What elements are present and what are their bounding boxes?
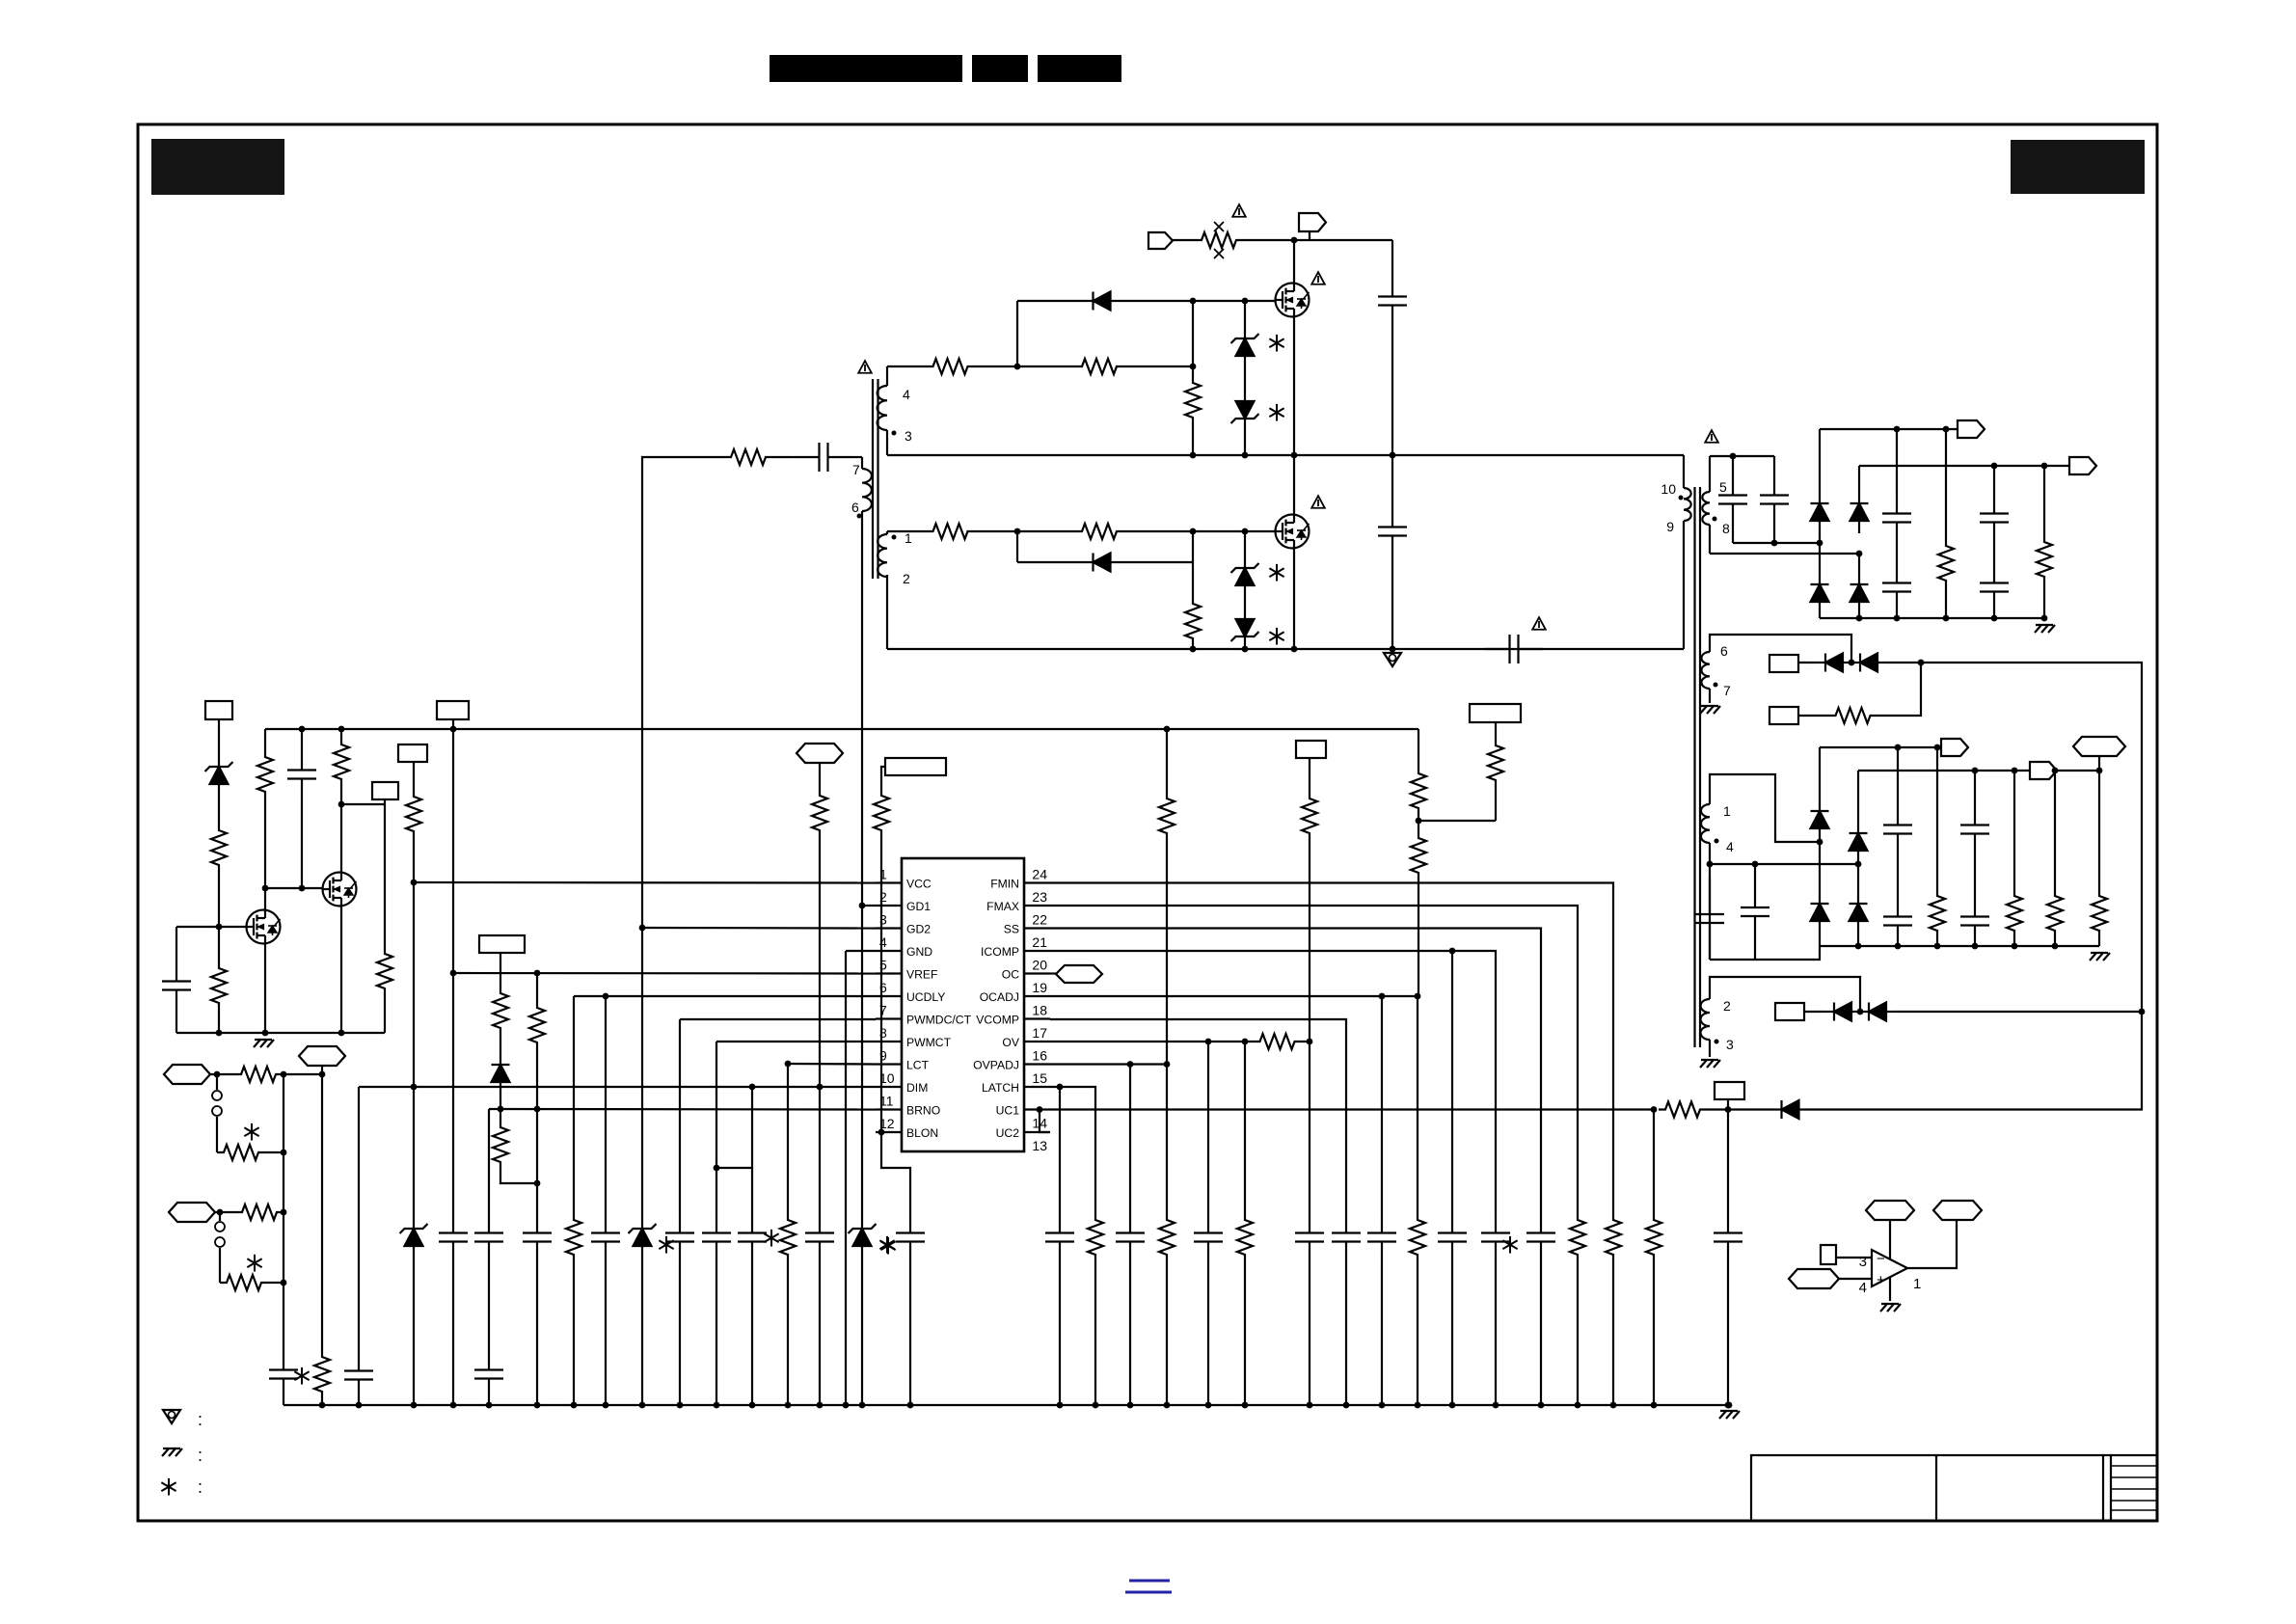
label U2 pin3: [1859, 1254, 1867, 1270]
resistor R_14: [1088, 1216, 1103, 1259]
junction bus1460 x780: [749, 1402, 756, 1409]
svg-text:18: 18: [1032, 1003, 1047, 1018]
resistor R_fb: [705, 449, 792, 465]
component box B13: [1821, 1245, 1836, 1264]
svg-text:21: 21: [1032, 934, 1047, 950]
wire col1210 low: [1166, 1065, 1168, 1217]
pin 4 GND: [876, 934, 932, 959]
op-amp U2: [1872, 1250, 1907, 1286]
capacitor C_in2: [1378, 510, 1407, 553]
wire B8 stem: [500, 953, 501, 989]
wire VIN column upper: [1391, 240, 1393, 280]
wire node896 right: [1710, 863, 1858, 865]
svg-text:1: 1: [1913, 1276, 1921, 1292]
nc contacts col228: [215, 1212, 225, 1283]
junction diode col2 mid: [1856, 551, 1863, 557]
wire col1887 gnd: [1819, 614, 1821, 618]
pin 14 UC1: [996, 1104, 1050, 1131]
diode D3: [1811, 491, 1829, 533]
resistor R_19: [1302, 795, 1317, 837]
wire PWMDCCT row: [680, 1018, 876, 1020]
junction OVPADJ x1172: [1127, 1061, 1134, 1068]
wire col2048b: [1974, 851, 1976, 900]
capacitor C_16: [1194, 1216, 1223, 1259]
wire col1887 rail1: [1819, 429, 1821, 491]
ground symbol bus1460: [1719, 1411, 1740, 1419]
wire row2 res2: [268, 1282, 284, 1284]
wire col1551 bus: [1495, 1259, 1497, 1405]
redaction bar 1: [770, 55, 962, 82]
wire GD2 row: [642, 927, 876, 930]
svg-text:24: 24: [1032, 867, 1047, 882]
junction row2 x228: [217, 1209, 224, 1216]
junction gnd641 x2068: [1991, 615, 1998, 622]
wire U2 gnd: [1889, 1278, 1891, 1301]
capacitor C_s10: [1883, 900, 1912, 942]
net tag hex VP: [797, 744, 843, 763]
junction gnd981 x2131: [2052, 943, 2059, 950]
wire col2009: [1936, 747, 1938, 892]
wire B7 stem: [413, 762, 415, 793]
wire B12 stem: [1495, 722, 1497, 742]
wire col334: [321, 1074, 323, 1353]
svg-text:PWMCT: PWMCT: [906, 1036, 952, 1049]
wire zener mid2: [1244, 598, 1246, 611]
junction cap col 1820 top: [1752, 861, 1759, 868]
junction bus1460 x334: [319, 1402, 326, 1409]
wire winding3 bottom: [1709, 1040, 1711, 1057]
junction bus1460 x1673: [1610, 1402, 1617, 1409]
resistor R_13: [1237, 1216, 1253, 1259]
redaction bar 2: [972, 55, 1028, 82]
component box B8: [479, 935, 525, 953]
wire winding4 bottom: [1709, 843, 1711, 960]
junction rail799 x2048: [1972, 768, 1979, 774]
svg-text:ICOMP: ICOMP: [981, 945, 1019, 959]
svg-text:DIM: DIM: [906, 1081, 928, 1095]
pin 5 VREF: [876, 958, 938, 982]
net tag hex CMP+: [1789, 1269, 1839, 1288]
wire VCC row: [414, 881, 876, 884]
wire col2177b: [2098, 934, 2100, 946]
wire col1470 low: [1417, 996, 1418, 1216]
asterisk C_12: [1502, 1236, 1517, 1254]
ground symbol winding3: [1700, 1060, 1720, 1068]
pin 17 OV: [1002, 1025, 1050, 1049]
wire gate row Q4: [265, 887, 323, 889]
junction gnd981 x1927: [1855, 943, 1862, 950]
resistor R_20: [1411, 770, 1426, 812]
junction bus1460 x557: [534, 1402, 541, 1409]
wire row1 b: [283, 1073, 322, 1075]
title block: [1751, 1455, 2157, 1521]
wire VIN column mid: [1391, 322, 1393, 455]
svg-text::: :: [198, 1410, 203, 1429]
junction rail483 x2068: [1991, 463, 1998, 470]
wire OV row: [1050, 1041, 1245, 1042]
bus 1071: [176, 1032, 385, 1034]
asterisk R_4: [764, 1230, 778, 1247]
junction col1927 mid: [1855, 861, 1862, 868]
capacitor C_s11: [1960, 808, 1989, 851]
component box B2: [1769, 707, 1798, 724]
zener ZD2: [1231, 389, 1259, 431]
wire col519 corner: [500, 1166, 537, 1183]
resistor R_s3: [1930, 892, 1945, 934]
svg-text:−: −: [1877, 1251, 1885, 1267]
junction gnd981 x1968: [1895, 943, 1902, 950]
wire Rg4 to gate Q2: [1157, 530, 1276, 532]
label T2 pin5: [1719, 479, 1727, 495]
wire col2089: [2013, 771, 2015, 892]
wire T2 primary bottom: [1683, 521, 1685, 649]
wire x1237 bus: [1192, 642, 1194, 649]
junction node B: [1190, 364, 1197, 370]
wire col507 low: [488, 1259, 490, 1353]
wire col850 mid: [819, 834, 821, 1087]
junction ICOMP row x1506: [1449, 948, 1456, 955]
wire Cfb to winding7: [852, 456, 862, 458]
net tag hex IN1: [164, 1065, 210, 1084]
junction col1887 mid: [1817, 839, 1823, 846]
wire ICOMP row: [1050, 951, 1496, 1216]
wire B5 stem: [341, 799, 385, 804]
rail sec1 445: [1820, 428, 1958, 430]
wire rail799 ext: [2057, 770, 2099, 771]
wire col313 top: [301, 729, 303, 753]
wire col1358 low: [1309, 1042, 1310, 1216]
junction D13 D14: [1857, 1009, 1864, 1015]
wire col227 mid2: [218, 869, 220, 927]
legend chassis ground symbol: [162, 1446, 203, 1465]
pin 20 OC: [1002, 958, 1050, 982]
wire col275 to Q3: [264, 888, 266, 910]
pin 18 VCOMP: [976, 1003, 1050, 1027]
wire LATCH row: [1050, 1087, 1095, 1216]
wire col1210 mid: [1166, 837, 1168, 1065]
wire SS row: [1050, 929, 1541, 1217]
label T1 pin3: [892, 428, 913, 444]
capacitor C_5: [738, 1216, 767, 1259]
label U2 minus: [1877, 1251, 1885, 1267]
border frame: [138, 124, 2157, 1521]
resistor R_15: [1659, 1102, 1707, 1118]
resistor R_8: [529, 1004, 545, 1046]
link underline 2: [1125, 1591, 1172, 1594]
junction gnd981 x2089: [2012, 943, 2018, 950]
wire PWMCT row: [716, 1041, 876, 1042]
wire B6 stem: [452, 719, 454, 729]
label T2 pin10: [1661, 481, 1683, 501]
junction row1 x225: [214, 1071, 221, 1078]
junction bus756 x313: [299, 726, 306, 733]
wire winding5 top: [1709, 456, 1711, 492]
capacitor C_15: [1332, 1216, 1361, 1259]
wire OCADJ row: [1050, 995, 1418, 997]
component box B12: [1470, 704, 1521, 722]
wire col1887C mid: [1819, 842, 1821, 890]
svg-text:FMAX: FMAX: [986, 900, 1019, 913]
capacitor C_20: [1295, 1216, 1324, 1259]
junction bus1460 x628: [603, 1402, 609, 1409]
junction bus1460 x372: [356, 1402, 363, 1409]
net tag OUT1: [1958, 420, 1985, 438]
wire col1968: [1897, 747, 1899, 808]
junction VREF row x470: [450, 970, 457, 977]
wire col1715: [1653, 1110, 1655, 1217]
net tag hex CMPOUT: [1933, 1201, 1982, 1220]
wire P1 to F1: [1173, 239, 1198, 241]
resistor R_7: [493, 1123, 508, 1166]
asterisk ZD1: [1269, 335, 1283, 352]
wire col354 top: [340, 729, 342, 741]
junction x1291 row551: [1242, 528, 1249, 535]
resistor R_s5: [2047, 892, 2063, 934]
resistor R_26: [235, 1204, 284, 1220]
ground symbol left section: [254, 1040, 274, 1047]
capacitor C_13: [1438, 1216, 1467, 1259]
wire winding6 down GD1 column: [861, 511, 863, 906]
resistor R_L3: [211, 964, 227, 1007]
wire winding7 top: [861, 457, 863, 469]
capacitor C_L1: [287, 753, 316, 796]
label T2 sec pin4: [1715, 839, 1735, 855]
junction bus1071 x275: [262, 1030, 269, 1037]
pin 11 BRNO: [876, 1094, 940, 1118]
wire col705: [679, 1019, 681, 1216]
wire col1928 rail2: [1858, 466, 1860, 491]
wire col1396 bus: [1345, 1259, 1347, 1405]
junction bus1460 x1172: [1127, 1402, 1134, 1409]
junction bus1460 x705: [677, 1402, 684, 1409]
wire col817 bus: [787, 1259, 789, 1405]
wire FMIN row: [1050, 883, 1613, 1217]
capacitor C_6: [805, 1216, 834, 1259]
resistor R_16: [1646, 1216, 1661, 1259]
wire col1172 bus: [1129, 1259, 1131, 1405]
junction GD2 row x666: [639, 925, 646, 932]
junction bus1460 x507: [486, 1402, 493, 1409]
wire bottom rail 995: [1710, 946, 1820, 960]
inductor T2 winding 5-8: [1702, 492, 1710, 525]
svg-text:1: 1: [905, 530, 912, 546]
warning mark Q2: [1311, 496, 1325, 508]
wire col294 bus: [283, 1395, 284, 1405]
net tag VIN: [1299, 213, 1326, 231]
wire col334 stem: [321, 1066, 323, 1074]
capacitor C_s5: [1980, 497, 2009, 539]
wire col850 top: [819, 763, 821, 792]
wire col227 mid: [218, 797, 220, 826]
svg-text::: :: [198, 1446, 203, 1465]
wire Q1 drain: [1293, 240, 1295, 284]
capacitor C_2: [591, 1216, 620, 1259]
junction BRNO row x519: [498, 1106, 504, 1113]
wire x1291 bus: [1244, 644, 1246, 649]
zener ZD6: [205, 754, 233, 797]
wire winding2 top: [1710, 977, 1860, 1012]
wire sec mid rail: [1710, 553, 1859, 555]
svg-text:OV: OV: [1002, 1036, 1019, 1049]
wire x1237 row583: [1192, 531, 1194, 562]
resistor R_27: [220, 1275, 268, 1290]
wire col595 bus: [573, 1259, 575, 1405]
wire T2 primary top: [1683, 455, 1685, 488]
wire col1792: [1727, 1110, 1729, 1217]
wire col429 bus: [413, 1259, 415, 1405]
resistor R_s6: [2092, 892, 2107, 934]
wire GND col: [845, 951, 847, 1405]
diode D15: [492, 1052, 510, 1095]
wire Q3 gate row: [176, 926, 247, 928]
label T1 pin6: [851, 500, 862, 519]
label T1 pin7: [852, 462, 860, 477]
resistor R_10: [1606, 1216, 1621, 1259]
net tag hex IN2: [169, 1203, 215, 1222]
diode D10: [1811, 890, 1829, 934]
svg-text:6: 6: [851, 500, 859, 515]
resistor R_pd1: [1185, 379, 1201, 421]
wire BLON jog: [881, 1132, 910, 1216]
wire col470 low: [452, 973, 454, 1216]
junction UC1 x1792: [1725, 1106, 1732, 1113]
wire col944 bus: [909, 1259, 911, 1405]
capacitor C_fb: [795, 443, 852, 472]
svg-text:16: 16: [1032, 1048, 1047, 1064]
wire row1: [210, 1073, 234, 1075]
wire UC1 row: [1050, 1108, 1654, 1110]
junction bus1460 x1136: [1093, 1402, 1099, 1409]
capacitor C_7: [474, 1216, 503, 1259]
label U2 plus: [1877, 1272, 1885, 1288]
component box B1: [1769, 655, 1798, 672]
capacitor C_s9: [1883, 808, 1912, 851]
wire col334 bus: [321, 1395, 323, 1405]
wire col1715 bus: [1653, 1259, 1655, 1405]
junction GD1 row: [859, 903, 866, 909]
label T1 pin4: [903, 387, 910, 402]
wire col1598 bus: [1540, 1259, 1542, 1405]
wire col628: [605, 996, 607, 1216]
wire x1291 upper: [1244, 301, 1246, 326]
capacitor C_s12: [1960, 900, 1989, 942]
wire col2048c: [1974, 942, 1976, 946]
junction OCADJ x1470: [1415, 993, 1421, 1000]
pin 7 PWMDC/CT: [876, 1003, 972, 1027]
diode D9: [1811, 798, 1829, 842]
net tag hex OUT5: [2073, 737, 2125, 756]
wire VIN to right column: [1294, 239, 1392, 241]
pin 16 OVPADJ: [973, 1048, 1050, 1072]
svg-text:3: 3: [905, 428, 912, 444]
wire VIN column bottom: [1391, 553, 1393, 649]
net tag hex VCC2: [1866, 1201, 1914, 1220]
inductor T1 winding 4-3: [878, 386, 887, 430]
wire col1136 bus: [1094, 1259, 1096, 1405]
junction rail483 x2120: [2041, 463, 2048, 470]
capacitor C_18: [1045, 1216, 1074, 1259]
junction bus1460 x1793: [1726, 1402, 1733, 1409]
black label box top-left: [151, 139, 284, 195]
wire col1358 mid: [1309, 837, 1310, 1042]
wire B9 stem: [881, 767, 885, 792]
svg-text:UCDLY: UCDLY: [906, 990, 945, 1004]
wire x1237 lower2: [1192, 562, 1194, 600]
zener ZD3: [1231, 555, 1259, 598]
resistor R_28: [314, 1353, 330, 1395]
wire R15-node: [1707, 1108, 1746, 1110]
resistor R_g1: [907, 359, 993, 374]
resistor R_pd2: [1185, 600, 1201, 642]
label T1 pin1: [892, 530, 913, 546]
warning mark Q1: [1311, 272, 1325, 284]
junction bus1460 x595: [571, 1402, 578, 1409]
svg-text:PWMDC/CT: PWMDC/CT: [906, 1014, 972, 1027]
wire col850 bus: [819, 1259, 821, 1405]
resistor R_g3: [907, 524, 993, 539]
wire Raux corner: [1888, 663, 1921, 716]
wire col1673 bus: [1612, 1259, 1614, 1405]
resistor R_18: [1159, 1216, 1175, 1259]
junction row687 x1992: [1918, 660, 1925, 666]
svg-text:+: +: [1877, 1272, 1885, 1288]
junction col227 gate: [216, 924, 223, 931]
svg-text:VREF: VREF: [906, 968, 938, 982]
capacitor C_s1: [1718, 456, 1747, 543]
wire col372 bus: [358, 1396, 360, 1405]
wire col470 bus: [452, 1259, 454, 1405]
junction VIN: [1291, 237, 1298, 244]
junction LATCH x1099: [1057, 1084, 1064, 1091]
junction rail799 x2177: [2096, 768, 2103, 774]
wire BRNO row: [489, 1108, 876, 1111]
capacitor C_s8: [1741, 864, 1769, 960]
wire col1470 top: [1418, 729, 1419, 770]
rail 472: [887, 454, 1684, 456]
resistor R_L5: [377, 950, 392, 992]
wire D2 to node D: [1148, 561, 1193, 563]
legend asterisk: [161, 1477, 203, 1497]
inductor T2 winding 1-4: [1701, 804, 1710, 843]
junction bus1460 x1470: [1415, 1402, 1421, 1409]
wire winding4 top: [886, 366, 888, 386]
svg-text:2: 2: [903, 571, 910, 586]
capacitor C_3: [665, 1216, 694, 1259]
wire winding4 bottom: [886, 430, 888, 455]
capacitor C_22: [344, 1354, 373, 1396]
pin 21 ICOMP: [981, 934, 1050, 959]
junction bus756 x1210: [1164, 726, 1171, 733]
junction col354 box2: [338, 801, 345, 808]
component box B10: [1715, 1082, 1744, 1099]
diode D12: [1850, 890, 1868, 934]
wire col628 bus: [605, 1259, 607, 1405]
wire col507 bus: [488, 1395, 490, 1405]
wire GD1 row: [862, 905, 876, 907]
fusible resistor F1: [1198, 222, 1240, 258]
junction bus1460 x944: [907, 1402, 914, 1409]
wire BRNO corner col507: [488, 1109, 490, 1216]
wire col780: [751, 1168, 753, 1216]
wire col275 top: [264, 729, 266, 753]
junction BLON row: [878, 1129, 885, 1136]
asterisk row1: [244, 1123, 258, 1141]
zener ZD1: [1231, 326, 1259, 368]
junction diode col1 mid: [1817, 540, 1823, 547]
wire Rg3 to Rg4: [993, 530, 1041, 532]
junction gate row Q1 x1237: [1190, 298, 1197, 305]
junction bus1460 x1291: [1242, 1402, 1249, 1409]
